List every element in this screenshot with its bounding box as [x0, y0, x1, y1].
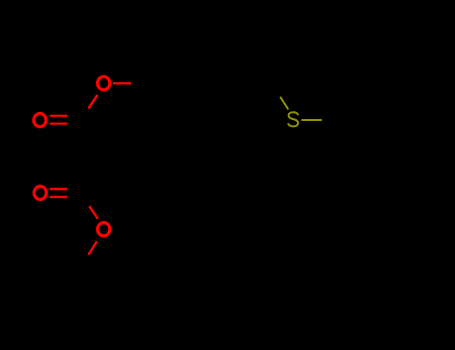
double bond C1=O1 lower line [50, 122, 68, 124]
atom S thioether sulfur [288, 112, 298, 126]
double bond C1=O1 upper line [50, 115, 68, 117]
atom O3 carbonyl oxygen (lower left) [34, 186, 46, 199]
bond CH2-S (diagonal above left of S) [280, 97, 288, 110]
bond S-Cipso (horizontal stub right of S) [301, 119, 321, 121]
bond C2-O4 (diagonal above bottom O) [89, 206, 98, 219]
atom O1 carbonyl oxygen (upper left) [34, 113, 46, 126]
bond O4-CH2 (diagonal below bottom O) [88, 241, 97, 255]
double bond C2=O3 lower line [50, 196, 68, 198]
bond O2-CH3 (horizontal stub right of top O) [113, 82, 131, 84]
atom O4 ester oxygen (bottom) [98, 223, 110, 236]
atom O2 ester oxygen (top) [98, 77, 110, 90]
bond C1-O2 (diagonal below top O) [89, 95, 98, 109]
double bond C2=O3 upper line [50, 188, 68, 190]
